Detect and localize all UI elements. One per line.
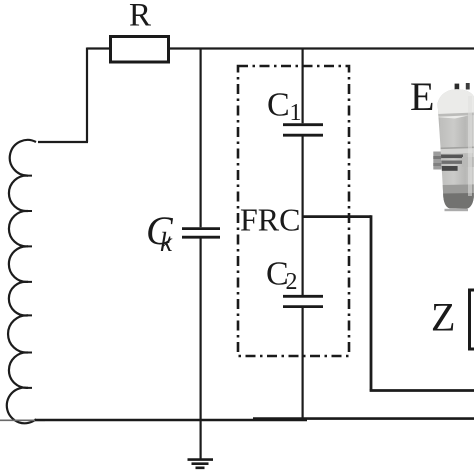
svg-text:1: 1 — [290, 100, 302, 126]
wire ground stem — [200, 420, 202, 459]
svg-text:k: k — [160, 227, 173, 257]
wire bottom bus right — [253, 417, 474, 420]
inductor winding — [7, 140, 36, 423]
wire top bus — [87, 47, 109, 49]
wire bottom bus thin left — [0, 419, 45, 421]
svg-text:Z: Z — [431, 295, 455, 340]
wire FRC tap horizontal — [303, 215, 371, 218]
wire C1-C2 middle — [302, 136, 304, 295]
FRC box dash-dot — [238, 66, 349, 356]
inductor cusp ticks — [27, 176, 32, 388]
equipment E photo — [433, 83, 474, 211]
wire C2 vertical bottom — [302, 308, 304, 422]
wire Ck vertical bottom — [200, 238, 202, 421]
svg-text:C: C — [267, 87, 290, 124]
resistor R — [111, 37, 169, 63]
wire coil top — [38, 141, 88, 143]
wire FRC tap vertical — [370, 215, 373, 390]
capacitor C1 — [283, 125, 323, 136]
ground — [188, 460, 214, 468]
svg-text:E: E — [410, 74, 434, 119]
wire bottom bus left — [35, 419, 307, 422]
wire to Z bottom — [370, 389, 474, 392]
wire C1 vertical top — [302, 48, 304, 123]
capacitor C2 — [283, 296, 323, 306]
svg-text:2: 2 — [286, 269, 298, 295]
capacitor Ck — [182, 229, 220, 238]
svg-text:FRC: FRC — [240, 202, 300, 238]
wire top bus right — [170, 47, 474, 49]
wire Ck vertical top — [200, 48, 202, 227]
svg-text:R: R — [129, 0, 151, 34]
wire left vertical — [86, 48, 88, 143]
impedance Z box — [470, 290, 474, 349]
